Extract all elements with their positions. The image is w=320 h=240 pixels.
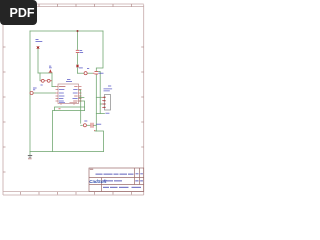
svg-text:CadSoft: CadSoft bbox=[89, 179, 107, 184]
